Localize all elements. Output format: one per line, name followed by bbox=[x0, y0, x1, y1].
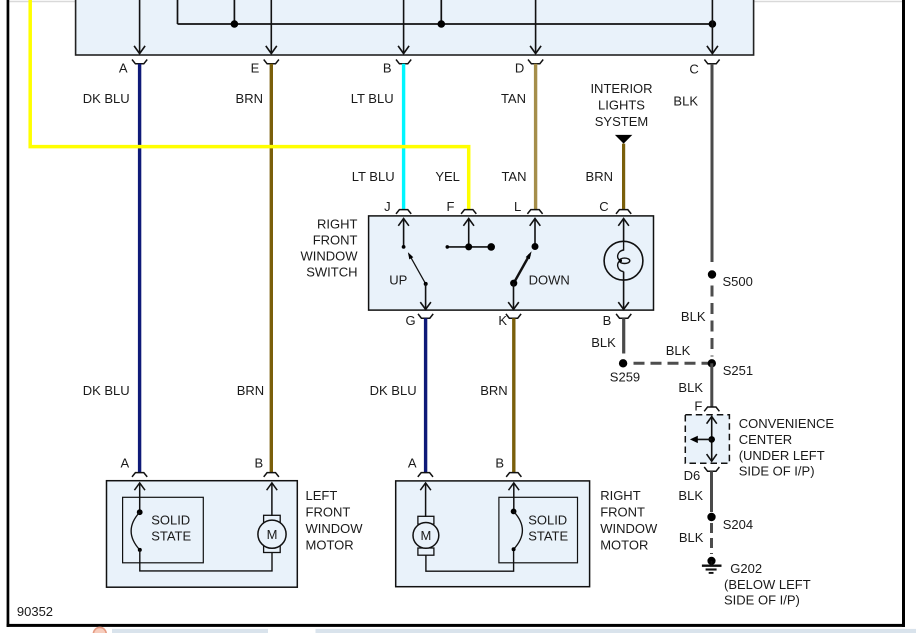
svg-text:C: C bbox=[689, 62, 698, 77]
convenience center through wire with up arrow bbox=[707, 417, 717, 462]
bottom edge strip fragment right bbox=[316, 629, 916, 633]
M2 pin B wire with up arrow bbox=[509, 483, 520, 512]
dashed wire S259 to S251 bbox=[634, 362, 709, 365]
junction node 2 bbox=[438, 20, 446, 28]
M2 solid state contact node bbox=[511, 509, 517, 515]
svg-text:F: F bbox=[447, 199, 455, 214]
switch J contact wire with up arrow bbox=[398, 219, 409, 247]
svg-text:BLK: BLK bbox=[673, 94, 698, 109]
M2 solid state switch arc bbox=[514, 511, 523, 549]
switch feed bar bbox=[447, 246, 492, 248]
pin C connector cup bbox=[704, 60, 719, 64]
switch C lamp feed wire with up arrow bbox=[618, 219, 629, 242]
svg-text:A: A bbox=[119, 60, 128, 75]
svg-text:LEFT: LEFT bbox=[306, 488, 338, 503]
svg-text:UP: UP bbox=[389, 273, 407, 288]
svg-text:90352: 90352 bbox=[17, 604, 53, 619]
svg-text:D: D bbox=[515, 60, 524, 75]
svg-text:SWITCH: SWITCH bbox=[306, 265, 357, 280]
svg-text:B: B bbox=[495, 455, 504, 470]
switch pin G cup bbox=[418, 314, 433, 318]
svg-text:TAN: TAN bbox=[501, 169, 526, 184]
M1 solid state inner box bbox=[123, 497, 204, 563]
wire to pin B with arrow bbox=[398, 0, 409, 54]
svg-text:TAN: TAN bbox=[501, 91, 526, 106]
M1 motor brush caps bbox=[264, 515, 281, 523]
off-page triangle (interior lights system) bbox=[615, 135, 632, 144]
M1 motor circle bbox=[258, 520, 286, 548]
svg-text:G: G bbox=[405, 313, 415, 328]
pin D connector cup bbox=[528, 60, 543, 64]
wire to pin E with arrow bbox=[266, 0, 277, 54]
M2 solid state inner box bbox=[499, 497, 578, 563]
svg-text:J: J bbox=[384, 199, 391, 214]
wire to pin D with arrow bbox=[530, 0, 541, 54]
bottom edge avatar fragment bbox=[93, 627, 106, 633]
splice S500 bbox=[708, 270, 716, 278]
svg-text:S259: S259 bbox=[610, 370, 640, 385]
svg-text:K: K bbox=[498, 313, 507, 328]
svg-text:CENTER: CENTER bbox=[739, 432, 792, 447]
svg-text:BLK: BLK bbox=[679, 530, 704, 545]
switch pin B cup bbox=[616, 314, 631, 318]
diagram frame right border bbox=[902, 0, 905, 627]
svg-text:BRN: BRN bbox=[237, 383, 264, 398]
wire TAN (D to switch L) bbox=[534, 64, 537, 210]
svg-text:FRONT: FRONT bbox=[313, 233, 358, 248]
junction node 1 bbox=[231, 20, 239, 28]
svg-text:BLK: BLK bbox=[591, 335, 616, 350]
left front window motor box M1 bbox=[107, 481, 298, 588]
svg-text:G202: G202 bbox=[730, 561, 762, 576]
svg-text:BLK: BLK bbox=[678, 380, 703, 395]
label RIGHT FRONT WINDOW MOTOR bbox=[600, 488, 658, 553]
svg-text:SOLID: SOLID bbox=[151, 513, 190, 528]
switch pin C cup bbox=[616, 210, 631, 214]
svg-text:M: M bbox=[420, 528, 431, 543]
M1 solid state switch arc bbox=[131, 512, 140, 550]
svg-text:A: A bbox=[408, 455, 417, 470]
switch K wire with down arrow bbox=[508, 283, 519, 309]
svg-text:(BELOW LEFT: (BELOW LEFT bbox=[724, 577, 811, 592]
wire elbow to bus bbox=[177, 0, 179, 24]
switch F feed wire with up arrow bbox=[463, 219, 474, 247]
svg-text:E: E bbox=[251, 60, 260, 75]
svg-text:B: B bbox=[603, 313, 612, 328]
svg-text:FRONT: FRONT bbox=[306, 505, 351, 520]
dashed wire S204 to ground bbox=[710, 523, 713, 554]
wire BLK (C to S500) bbox=[711, 64, 714, 262]
wire DK BLU (A to left motor A) bbox=[138, 64, 141, 473]
diagram frame bottom border bbox=[7, 624, 905, 627]
label LEFT FRONT WINDOW MOTOR bbox=[306, 488, 364, 553]
switch K pivot node bbox=[510, 280, 517, 287]
svg-text:LT BLU: LT BLU bbox=[352, 169, 395, 184]
label INTERIOR LIGHTS SYSTEM bbox=[590, 81, 652, 129]
svg-text:MOTOR: MOTOR bbox=[306, 538, 354, 553]
feed bar right node bbox=[487, 243, 495, 251]
label G202 bbox=[724, 561, 811, 608]
lamp DS1 filament bbox=[618, 241, 624, 271]
svg-text:DK BLU: DK BLU bbox=[83, 91, 130, 106]
svg-text:SOLID: SOLID bbox=[528, 513, 567, 528]
dashed wire S500 to S251 bbox=[711, 286, 714, 357]
pin A connector cup bbox=[132, 60, 147, 64]
svg-text:S204: S204 bbox=[723, 517, 753, 532]
left front window motor pin B cup bbox=[264, 473, 279, 477]
switch pin K cup bbox=[506, 314, 521, 318]
switch pin J cup bbox=[396, 210, 411, 214]
wire LT BLU (B to switch J) bbox=[402, 64, 405, 210]
svg-text:SIDE OF I/P): SIDE OF I/P) bbox=[739, 464, 815, 479]
convenience center pin D6 cup bbox=[704, 467, 719, 471]
M1 internal wire to motor bbox=[140, 550, 272, 571]
svg-text:RIGHT: RIGHT bbox=[317, 217, 358, 232]
wire BRN (E to left motor B) bbox=[270, 64, 273, 473]
svg-text:CONVENIENCE: CONVENIENCE bbox=[739, 416, 835, 431]
label CONVENIENCE CENTER bbox=[739, 416, 835, 478]
faint top rule right of connector box bbox=[754, 1, 903, 3]
convenience center tap wire bbox=[693, 438, 712, 440]
svg-text:SYSTEM: SYSTEM bbox=[595, 114, 648, 129]
svg-text:D6: D6 bbox=[684, 468, 701, 483]
switch UP arm arrowhead bbox=[408, 252, 413, 259]
wire BRN (K to right motor B) bbox=[512, 318, 515, 472]
switch L contact node bbox=[532, 243, 539, 250]
svg-text:M: M bbox=[267, 527, 278, 542]
label RIGHT FRONT WINDOW SWITCH bbox=[300, 217, 358, 280]
M2 motor circle bbox=[413, 523, 439, 549]
svg-text:S251: S251 bbox=[723, 363, 753, 378]
right front window motor pin B cup bbox=[506, 473, 521, 477]
svg-text:B: B bbox=[255, 455, 264, 470]
svg-text:WINDOW: WINDOW bbox=[300, 249, 358, 264]
svg-text:STATE: STATE bbox=[528, 529, 568, 544]
wire BLK (S251 to convenience center F) bbox=[710, 363, 713, 407]
M2 solid state lower node bbox=[512, 547, 516, 551]
splice S204 bbox=[707, 513, 715, 521]
svg-text:L: L bbox=[514, 199, 521, 214]
connector box U1 (window switch feed, cut off at top) bbox=[76, 0, 754, 55]
wire to pin C with arrow bbox=[707, 0, 718, 54]
M1 pin A wire with up arrow bbox=[134, 483, 145, 512]
label SOLID STATE (M2) bbox=[528, 513, 568, 544]
wire stub to node 2 bbox=[440, 0, 442, 24]
lamp DS1 filament loop bbox=[619, 258, 629, 263]
svg-text:BLK: BLK bbox=[666, 343, 691, 358]
svg-text:(UNDER LEFT: (UNDER LEFT bbox=[739, 448, 825, 463]
switch DOWN arm arrowhead bbox=[526, 251, 532, 259]
splice S251 bbox=[708, 359, 716, 367]
svg-text:WINDOW: WINDOW bbox=[306, 521, 364, 536]
ground G202 symbol bbox=[702, 561, 722, 573]
wire BLK (switch B to S259) bbox=[622, 318, 625, 353]
switch B wire with down arrow bbox=[618, 272, 629, 310]
switch G pivot node bbox=[424, 282, 428, 286]
switch G wire with down arrow bbox=[420, 284, 431, 310]
wire stub to node 1 bbox=[233, 0, 235, 24]
M2 internal wire to solid state bbox=[426, 549, 514, 571]
svg-text:LT BLU: LT BLU bbox=[351, 91, 394, 106]
wire BRN (interior lights to switch C) bbox=[622, 144, 625, 210]
svg-text:BLK: BLK bbox=[681, 309, 706, 324]
switch pin F cup bbox=[461, 210, 476, 214]
wire YEL feed to switch F bbox=[30, 0, 469, 210]
switch DOWN movable arm bbox=[514, 255, 530, 284]
wire to pin A with arrow bbox=[134, 0, 145, 54]
M1 solid state contact node bbox=[137, 509, 143, 515]
svg-text:RIGHT: RIGHT bbox=[600, 488, 641, 503]
lamp DS1 filament node bbox=[619, 259, 622, 262]
svg-text:B: B bbox=[383, 60, 392, 75]
splice S259 bbox=[619, 359, 627, 367]
label SOLID STATE (M1) bbox=[151, 513, 191, 544]
svg-text:C: C bbox=[599, 199, 608, 214]
feed bar F node bbox=[465, 243, 472, 250]
feed bar left node bbox=[446, 245, 450, 249]
M1 pin B wire with up arrow bbox=[267, 483, 278, 516]
right front window motor box M2 bbox=[396, 481, 590, 587]
svg-text:DK BLU: DK BLU bbox=[83, 383, 130, 398]
lamp DS1 circle bbox=[604, 241, 643, 280]
svg-text:BRN: BRN bbox=[236, 91, 263, 106]
wire BLK (D6 to S204) bbox=[710, 471, 713, 512]
diagram frame left border bbox=[7, 0, 10, 627]
svg-text:BRN: BRN bbox=[480, 383, 507, 398]
right front window switch box U2 bbox=[369, 216, 654, 310]
svg-text:WINDOW: WINDOW bbox=[600, 521, 658, 536]
bus wire inside connector box bbox=[178, 23, 713, 25]
svg-text:DOWN: DOWN bbox=[529, 273, 570, 288]
switch L contact wire with up arrow bbox=[530, 219, 541, 247]
junction node 3 bbox=[709, 20, 717, 28]
right front window motor pin A cup bbox=[418, 473, 433, 477]
switch J contact node bbox=[402, 245, 406, 249]
svg-text:MOTOR: MOTOR bbox=[600, 538, 648, 553]
switch UP movable arm bbox=[409, 255, 425, 284]
faint top rule left of connector box bbox=[10, 1, 76, 3]
svg-text:YEL: YEL bbox=[435, 169, 460, 184]
M2 motor brush caps bbox=[418, 516, 434, 524]
pin B connector cup bbox=[396, 60, 411, 64]
wire DK BLU (G to right motor A) bbox=[424, 318, 427, 472]
svg-text:FRONT: FRONT bbox=[600, 505, 645, 520]
switch pin L cup bbox=[527, 210, 542, 214]
svg-text:SIDE OF I/P): SIDE OF I/P) bbox=[724, 593, 800, 608]
bottom edge strip fragment left bbox=[112, 629, 268, 633]
svg-text:DK BLU: DK BLU bbox=[370, 383, 417, 398]
svg-text:BRN: BRN bbox=[586, 169, 613, 184]
M2 pin A wire with up arrow bbox=[420, 483, 431, 517]
svg-text:BLK: BLK bbox=[678, 488, 703, 503]
pin E connector cup bbox=[264, 60, 279, 64]
M1 solid state lower node bbox=[138, 548, 142, 552]
convenience center tap node bbox=[708, 436, 715, 443]
convenience center box (dashed) bbox=[685, 415, 729, 464]
svg-text:LIGHTS: LIGHTS bbox=[598, 98, 645, 113]
convenience center pin F cup bbox=[704, 407, 719, 411]
convenience center tap arrowhead bbox=[690, 436, 698, 443]
ground G202 node bbox=[707, 557, 715, 565]
svg-text:STATE: STATE bbox=[151, 529, 191, 544]
svg-text:F: F bbox=[694, 399, 702, 414]
svg-text:S500: S500 bbox=[723, 274, 753, 289]
svg-text:INTERIOR: INTERIOR bbox=[590, 81, 652, 96]
svg-text:A: A bbox=[121, 455, 130, 470]
left front window motor pin A cup bbox=[132, 473, 147, 477]
